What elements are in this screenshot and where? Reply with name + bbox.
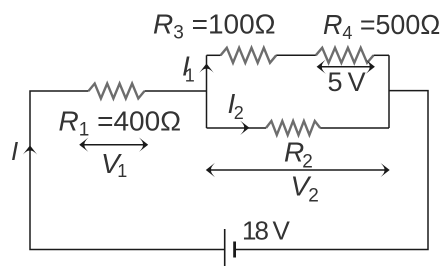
- svg-text:5 V: 5 V: [328, 67, 366, 97]
- svg-text:R1 =400Ω: R1 =400Ω: [59, 106, 182, 141]
- svg-text:R2: R2: [284, 137, 313, 173]
- svg-text:R4 =500Ω: R4 =500Ω: [323, 8, 440, 42]
- svg-text:I: I: [11, 136, 18, 166]
- svg-text:I2: I2: [228, 88, 244, 123]
- svg-text:I1: I1: [182, 51, 195, 86]
- svg-text:R3 =100Ω: R3 =100Ω: [153, 9, 276, 44]
- svg-text:V2: V2: [291, 171, 319, 207]
- svg-text:18 V: 18 V: [242, 216, 290, 246]
- svg-text:V1: V1: [101, 148, 127, 181]
